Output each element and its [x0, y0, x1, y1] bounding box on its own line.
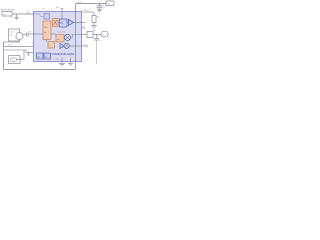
- svg-text:fs=2.4M: fs=2.4M: [57, 32, 65, 34]
- svg-text:Vs=1 kHz sig: Vs=1 kHz sig: [1, 9, 16, 12]
- svg-text:flt: flt: [61, 22, 63, 25]
- svg-text:EN: EN: [56, 7, 59, 9]
- svg-text:sw: sw: [83, 44, 86, 46]
- svg-text:PG: PG: [44, 27, 47, 29]
- svg-text:VDD: VDD: [77, 2, 82, 4]
- svg-text:g: g: [11, 17, 12, 19]
- svg-text:CSM9261B-GQ16: CSM9261B-GQ16: [52, 52, 75, 56]
- svg-text:ref: ref: [57, 38, 60, 41]
- svg-text:VOUT1: VOUT1: [83, 10, 91, 12]
- svg-text:bat: bat: [107, 3, 110, 6]
